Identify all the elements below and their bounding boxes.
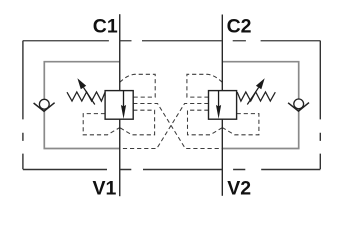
inner gray connection network: left check-valve branch (C1 rail, branch, V1 rail) — [44, 62, 119, 149]
port line C1 — [119, 14, 121, 90]
pilot line P3: CB1 lower-right port loop to V1 junction — [120, 110, 155, 135]
assembly boundary right edge (long-dashed) — [319, 41, 321, 170]
CB2 spring — [237, 92, 275, 101]
pilot line P5: C2 to upper-left port of valve CB2 — [187, 74, 222, 97]
CB1 adjustment arrow shaft — [84, 88, 95, 105]
counterbalance valve CB1 body — [105, 91, 133, 120]
assembly boundary top edge (long-dashed) — [23, 40, 320, 42]
pilot line P2: CB1 middle port crossing to V2 line — [133, 104, 222, 149]
svg-text:C2: C2 — [227, 16, 252, 38]
CB2 adjustment arrowhead — [256, 78, 265, 89]
CB1 internal flow arrowhead (down) — [121, 105, 126, 119]
check valve CV2 seat — [288, 103, 309, 112]
pilot line P1: C1 to upper-right port of valve CB1 — [120, 74, 155, 97]
pilot line P7: CB2 lower-left port loop to V2 junction — [188, 110, 223, 135]
svg-text:C1: C1 — [93, 16, 118, 38]
check valve CV1 seat — [34, 103, 55, 112]
port line C2 — [221, 15, 223, 91]
assembly boundary left edge (long-dashed) — [22, 41, 24, 170]
pilot line P6: CB2 middle port crossing to V1 line — [120, 104, 209, 149]
port line V2 — [221, 119, 223, 196]
CB1 adjustment arrowhead — [77, 78, 86, 89]
inner gray connection network: right check-valve branch (C2 rail, branch, V2 rail) — [222, 62, 298, 149]
CB1 internal flow line — [123, 91, 125, 107]
CB1 spring — [67, 92, 105, 101]
pilot line P4: CB1 left port loop to V1 junction — [83, 114, 120, 135]
svg-text:V1: V1 — [92, 178, 116, 200]
check valve CV1 ball — [39, 99, 49, 109]
CB2 internal flow line — [218, 91, 220, 107]
check valve CV2 ball — [294, 99, 304, 109]
assembly boundary bottom edge (long-dashed) — [23, 169, 320, 171]
pilot line P8: CB2 right port loop to V2 junction — [222, 114, 259, 135]
counterbalance valve CB2 body — [209, 91, 237, 120]
CB2 internal flow arrowhead (down) — [216, 105, 221, 119]
CB2 adjustment arrow shaft — [247, 88, 258, 105]
svg-text:V2: V2 — [227, 178, 251, 200]
port line V1 — [119, 119, 121, 196]
